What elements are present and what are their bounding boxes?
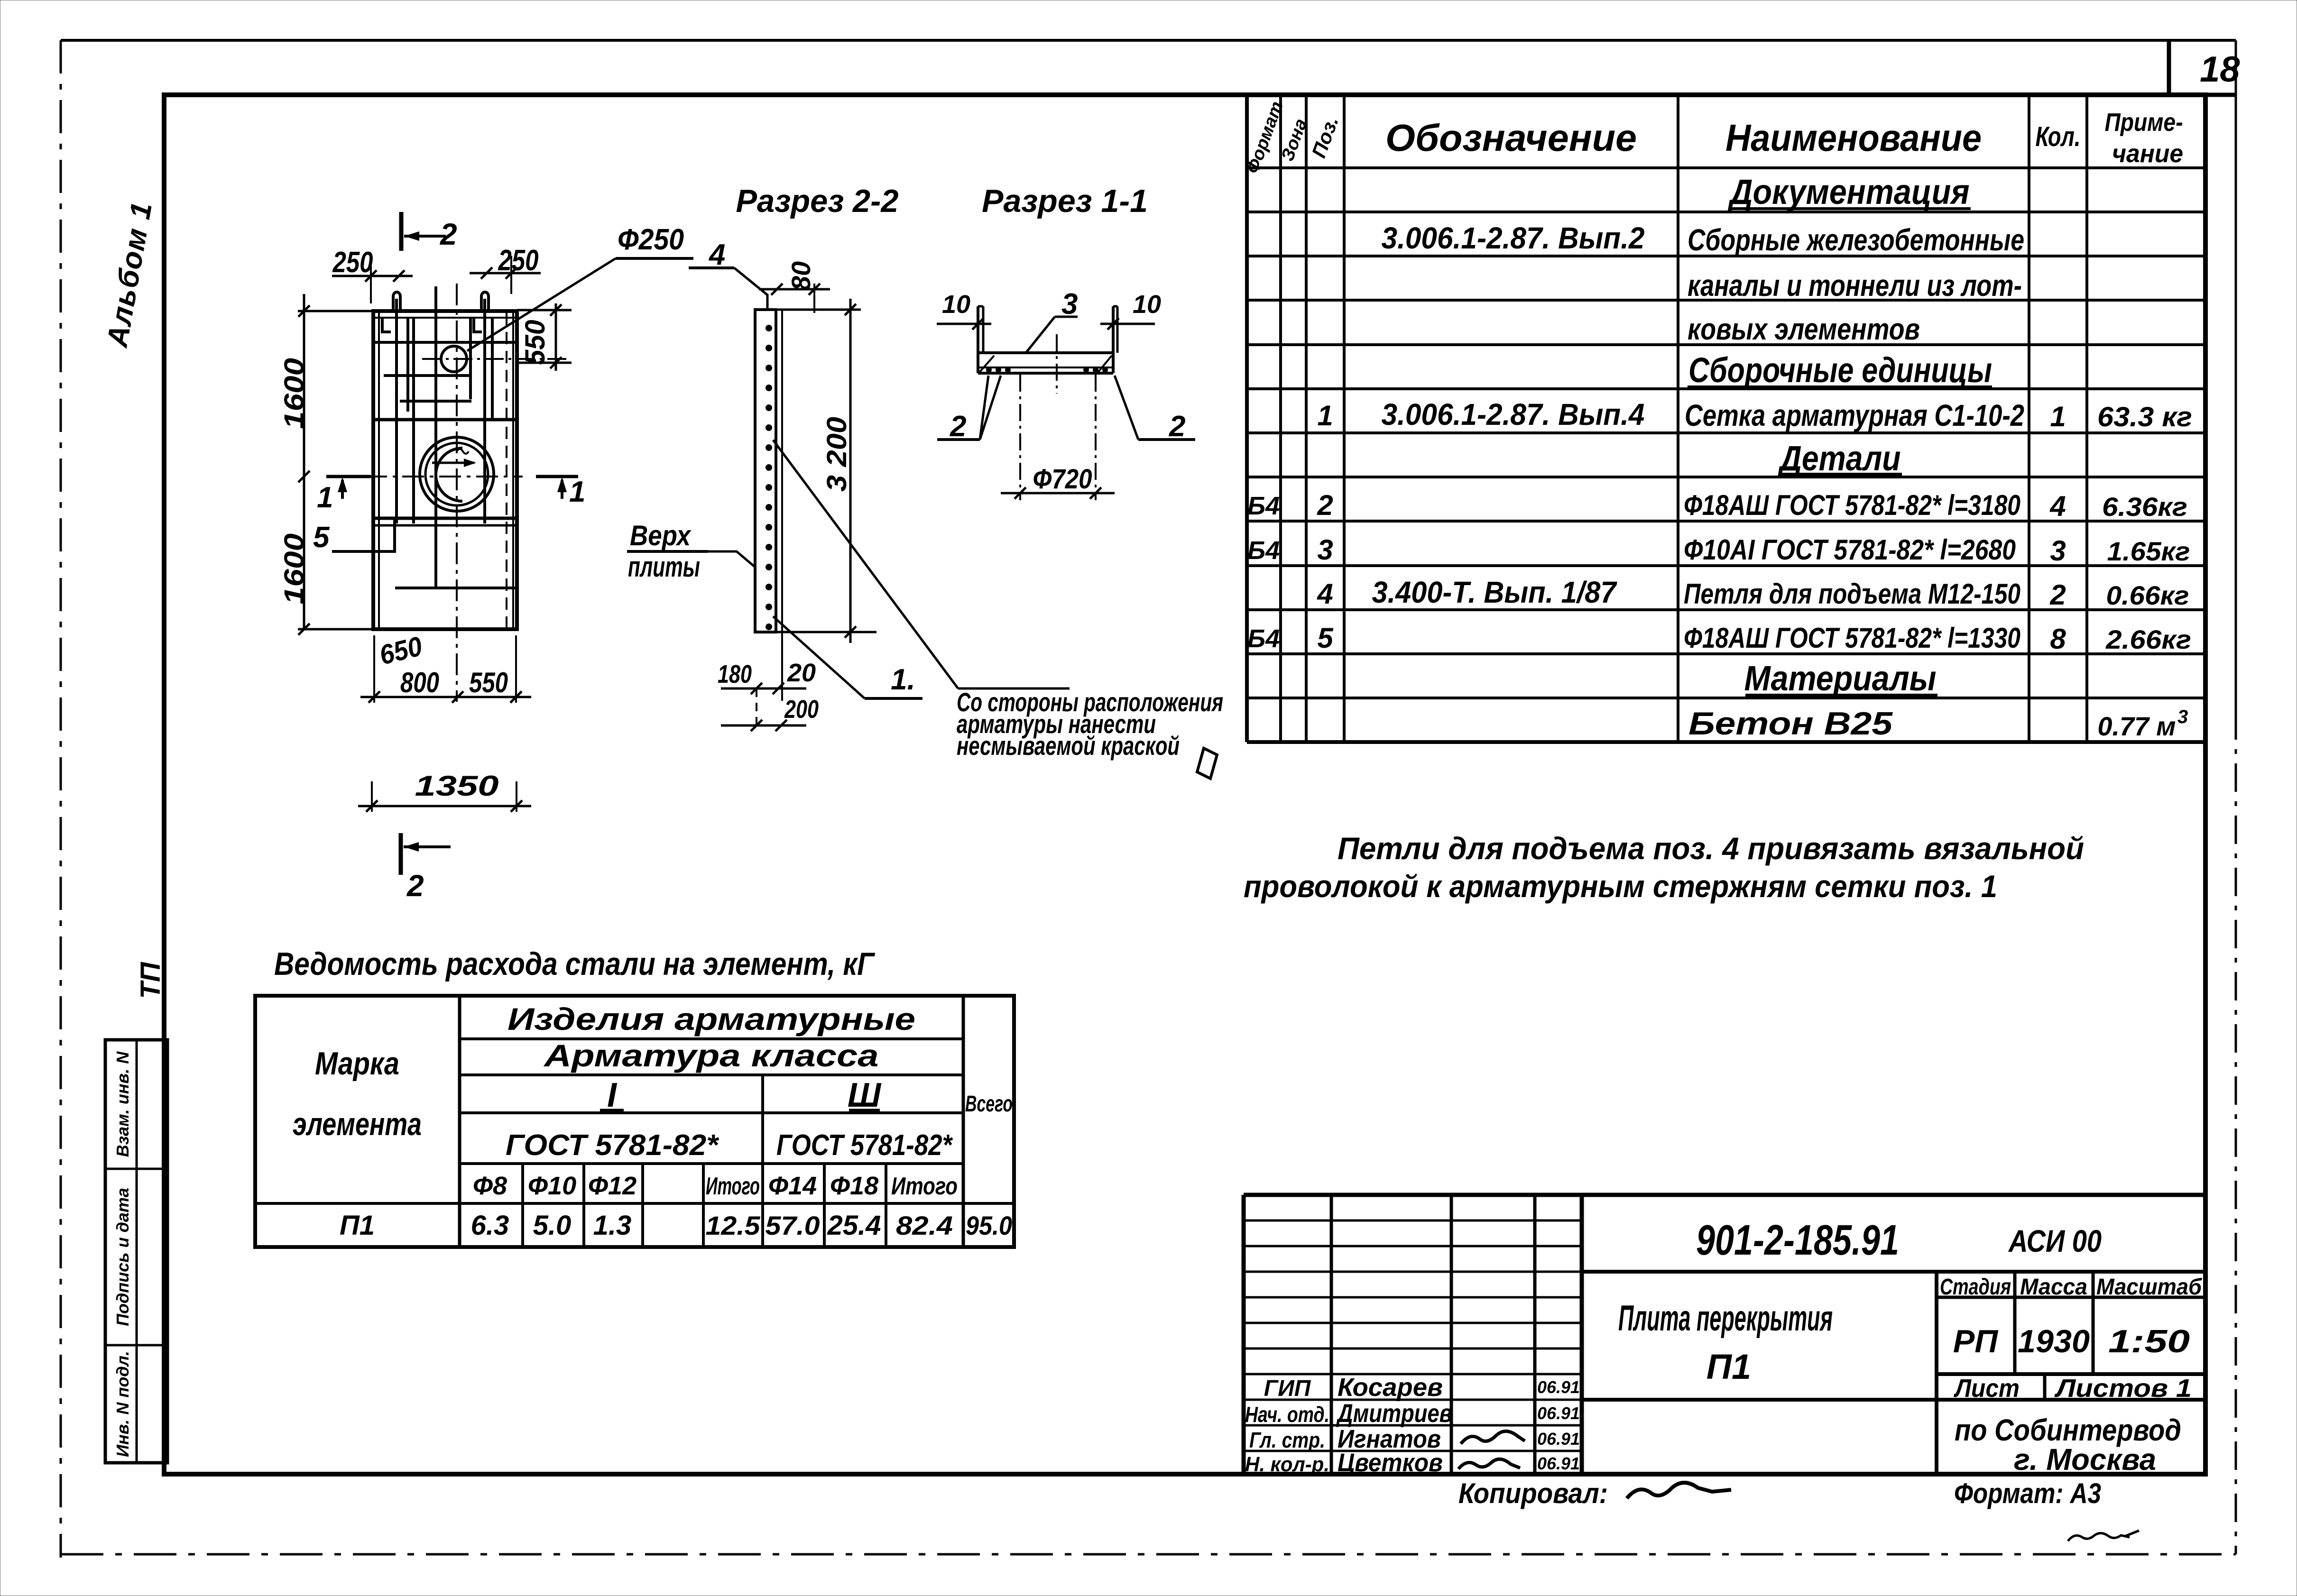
svg-text:Материалы: Материалы (1744, 659, 1937, 698)
section 1-1 label 2 left (937, 376, 1001, 443)
title block organization (1955, 1413, 2181, 1477)
svg-text:Обозначение: Обозначение (1385, 117, 1637, 159)
plan lifting loop left (393, 292, 400, 311)
plan rebar hook left (382, 317, 391, 332)
margin label TP (135, 962, 166, 999)
section 1-1 rebar dots right (1083, 367, 1108, 373)
svg-text:6.36кг: 6.36кг (2102, 492, 2187, 522)
svg-text:Ф10: Ф10 (528, 1172, 576, 1200)
svg-text:18: 18 (2200, 49, 2240, 90)
svg-text:Ф720: Ф720 (1033, 464, 1092, 495)
section 2-2 plate (755, 310, 782, 701)
plan dim 250 left (332, 246, 413, 303)
plan small hole F250 (422, 346, 567, 372)
stray pencil scribble bottom right (2068, 1531, 2139, 1541)
svg-text:Документация: Документация (1727, 172, 1969, 211)
spec row Detali (1777, 439, 1902, 478)
svg-text:Подпись и дата: Подпись и дата (113, 1188, 132, 1326)
spec header Kol (2036, 121, 2081, 152)
svg-text:П1: П1 (340, 1210, 375, 1241)
svg-text:Разрез 1-1: Разрез 1-1 (982, 183, 1148, 219)
spec row kanaly i tonneli (1688, 268, 2022, 303)
svg-text:Формат: А3: Формат: А3 (1954, 1477, 2101, 1509)
svg-text:1: 1 (1317, 400, 1333, 431)
svg-text:3: 3 (2177, 706, 2188, 727)
spec row F18AIII l=1330 (1247, 622, 2191, 655)
plan dim 250 right (470, 244, 541, 294)
svg-text:Ф14: Ф14 (768, 1172, 817, 1200)
svg-text:4: 4 (708, 238, 725, 271)
inner drawing frame (164, 95, 2205, 1474)
svg-text:Ф8: Ф8 (473, 1172, 507, 1200)
title block ACI 00 (2008, 1223, 2102, 1258)
svg-text:1:50: 1:50 (2108, 1323, 2190, 1359)
section 1-1 plate (978, 306, 1117, 373)
svg-text:ковых элементов: ковых элементов (1688, 312, 1920, 346)
svg-text:элемента: элемента (293, 1106, 422, 1142)
title block Stadiya Massa Masshtab (1940, 1275, 2202, 1359)
svg-text:2: 2 (1317, 489, 1333, 521)
svg-text:Приме-: Приме- (2105, 108, 2183, 137)
svg-text:5: 5 (1317, 622, 1334, 654)
section 2-2 dim 3200 (776, 299, 876, 643)
spec header rotated Poz (1307, 113, 1343, 161)
svg-text:2: 2 (950, 410, 966, 443)
svg-text:чание: чание (2112, 139, 2183, 168)
section 1-1 centerline (1056, 334, 1058, 394)
plan centerline vertical (456, 284, 458, 702)
svg-text:1: 1 (2050, 401, 2066, 432)
svg-text:1600: 1600 (279, 358, 310, 429)
margin label Podpis i data (113, 1188, 132, 1326)
section 1-1 rebar dots left (986, 367, 1011, 373)
signature squiggle Cvetkov (1458, 1459, 1520, 1469)
svg-text:2: 2 (440, 217, 457, 251)
section 1-1 title (982, 183, 1148, 219)
svg-text:5.0: 5.0 (533, 1210, 572, 1241)
svg-text:4: 4 (1317, 578, 1333, 610)
svg-text:Лист: Лист (1953, 1374, 2020, 1403)
spec row Sborochnye edinicy (1688, 350, 1992, 390)
section 2-2 dim 80 line (759, 284, 830, 313)
plan slab outline (373, 311, 517, 629)
svg-text:06.91: 06.91 (1537, 1429, 1580, 1449)
plan dim 800 550 bottom (360, 635, 531, 703)
section 2-2 bottom dims 180 20 200 (718, 659, 819, 731)
section 2-2 title (736, 183, 899, 219)
svg-text:АСИ 00: АСИ 00 (2008, 1223, 2102, 1258)
svg-text:63.3 кг: 63.3 кг (2097, 402, 2192, 432)
svg-text:200: 200 (784, 695, 819, 724)
svg-text:800: 800 (400, 667, 439, 698)
svg-text:Ведомость расхода стали на: Ведомость расхода стали на элемент, кГ (274, 946, 876, 982)
spec row kovyh elementov (1688, 312, 1920, 346)
spec header rotated Format (1243, 99, 1287, 176)
spec row Beton B25 (1688, 706, 2188, 742)
svg-text:2: 2 (406, 869, 424, 903)
plan big hole F720 (420, 437, 494, 511)
svg-text:06.91: 06.91 (1537, 1377, 1580, 1397)
svg-text:Б4: Б4 (1247, 492, 1280, 520)
section 2-2 verh plity label (627, 520, 755, 583)
margin label Inv N podl (113, 1351, 132, 1457)
svg-text:1: 1 (317, 481, 333, 514)
svg-text:Поз.: Поз. (1307, 113, 1343, 161)
svg-text:0.77 м: 0.77 м (2098, 711, 2176, 741)
svg-text:1.65кг: 1.65кг (2107, 536, 2190, 566)
section 2-2 dim 80 (786, 261, 816, 291)
svg-text:г. Москва: г. Москва (2014, 1442, 2156, 1477)
margin label Vzam inv N (113, 1051, 132, 1157)
spec row setka armaturnaya (1317, 397, 2192, 432)
section 2-2 leader pos1 (773, 616, 922, 698)
svg-text:550: 550 (469, 667, 508, 698)
svg-text:Кол.: Кол. (2036, 121, 2081, 152)
svg-text:57.0: 57.0 (766, 1211, 820, 1240)
svg-text:1.3: 1.3 (593, 1210, 632, 1241)
svg-text:901-2-185.91: 901-2-185.91 (1696, 1217, 1899, 1264)
svg-text:Разрез 2-2: Разрез 2-2 (736, 183, 899, 219)
section 2-2 dim 3200 label (821, 417, 852, 492)
svg-text:Цветков: Цветков (1338, 1449, 1443, 1477)
margin stamp table (105, 1040, 167, 1463)
svg-text:ТП: ТП (135, 962, 166, 999)
svg-text:550: 550 (520, 320, 551, 365)
svg-text:06.91: 06.91 (1537, 1403, 1580, 1423)
title block List / Listov (1953, 1374, 2192, 1403)
spec row Dokumentacia (1727, 172, 1971, 211)
svg-text:Итого: Итого (706, 1173, 760, 1200)
spec row Materialy (1744, 659, 1938, 698)
svg-text:82.4: 82.4 (896, 1211, 953, 1240)
svg-text:Наименование: Наименование (1725, 117, 1982, 159)
svg-text:Итого: Итого (891, 1173, 958, 1200)
spec header Naimenovanie (1725, 117, 1982, 159)
svg-text:25.4: 25.4 (827, 1210, 881, 1241)
section 2-2 rebar dots (766, 325, 772, 630)
svg-text:3.006.1-2.87. Вып.2: 3.006.1-2.87. Вып.2 (1382, 221, 1645, 255)
plan dim 650 slanted label (377, 631, 425, 671)
svg-text:ГОСТ 5781-82*: ГОСТ 5781-82* (506, 1129, 720, 1162)
plan section mark 2 bottom (401, 833, 451, 903)
spec row F10AI l=2680 (1247, 534, 2190, 567)
section 2-2 note diamond (1197, 748, 1217, 779)
svg-text:Стадия: Стадия (1940, 1275, 2011, 1300)
section 2-2 leader to note (773, 440, 1070, 688)
plan label 5 (313, 521, 330, 554)
svg-text:П1: П1 (1707, 1347, 1751, 1386)
svg-text:Взам. инв. N: Взам. инв. N (113, 1051, 132, 1157)
title block grid (1244, 1195, 2205, 1474)
plan section mark 1 right (536, 476, 585, 508)
spec header rotated Zona (1278, 116, 1311, 164)
plan dim 550 right label (520, 320, 551, 365)
svg-text:Изделия арматурные: Изделия арматурные (507, 1001, 915, 1036)
svg-text:180: 180 (718, 660, 752, 688)
svg-text:250: 250 (332, 246, 373, 279)
svg-text:Петли для подъема поз. 4 п: Петли для подъема поз. 4 привязать вязал… (1338, 831, 2084, 866)
title block name Plita perekrytiya (1618, 1298, 1833, 1386)
svg-text:3: 3 (2050, 535, 2066, 567)
svg-text:Альбом 1: Альбом 1 (101, 199, 158, 350)
svg-text:I: I (607, 1076, 618, 1114)
section 2-2 note text (957, 687, 1223, 761)
svg-text:95.0: 95.0 (966, 1211, 1012, 1240)
svg-text:Верх: Верх (630, 520, 692, 551)
svg-text:1: 1 (569, 476, 585, 508)
plan rebar grid horizontals (373, 342, 517, 588)
title block signature rows (1245, 1373, 1580, 1477)
section 1-1 dim 10 right (1100, 290, 1161, 353)
sheet number box (2169, 40, 2240, 95)
svg-text:1930: 1930 (2018, 1323, 2090, 1359)
svg-text:1.: 1. (891, 663, 915, 696)
svg-text:РП: РП (1953, 1323, 1999, 1359)
svg-text:Марка: Марка (315, 1046, 399, 1082)
svg-text:Дмитриев: Дмитриев (1336, 1399, 1452, 1428)
plan dim 1600 top label (279, 358, 310, 429)
svg-text:8: 8 (2050, 623, 2066, 655)
svg-text:Н. кол-р.: Н. кол-р. (1245, 1453, 1329, 1476)
svg-text:12.5: 12.5 (706, 1211, 761, 1240)
svg-text:каналы и тоннели из лот-: каналы и тоннели из лот- (1688, 268, 2022, 303)
spec row petlya dlya podema (1317, 575, 2189, 611)
svg-text:Ф250: Ф250 (618, 223, 684, 256)
svg-text:Копировал:: Копировал: (1458, 1477, 1608, 1509)
svg-text:6.3: 6.3 (471, 1210, 509, 1241)
section 1-1 dim 10 left (937, 290, 991, 353)
svg-text:2.66кг: 2.66кг (2105, 624, 2191, 654)
steel table title (274, 946, 876, 982)
svg-text:несмываемой краской: несмываемой краской (957, 731, 1180, 761)
svg-text:Ф18АШ ГОСТ 5781-82* l=1330: Ф18АШ ГОСТ 5781-82* l=1330 (1684, 622, 2020, 654)
section 1-1 label 3 (1026, 288, 1078, 353)
svg-text:Бетон В25: Бетон В25 (1688, 706, 1893, 742)
svg-text:0.66кг: 0.66кг (2106, 580, 2189, 610)
svg-text:3 200: 3 200 (821, 417, 852, 492)
svg-text:Косарев: Косарев (1338, 1373, 1443, 1402)
spec header Primechanie (2105, 108, 2184, 168)
svg-text:Ф18: Ф18 (830, 1172, 878, 1200)
spec row 3.006.1-2.87 vyp 2 (1382, 221, 2025, 257)
plan dim 550 right (516, 303, 572, 371)
svg-text:Нач. отд.: Нач. отд. (1245, 1402, 1329, 1427)
svg-text:3.006.1-2.87. Вып.4: 3.006.1-2.87. Вып.4 (1382, 397, 1645, 431)
svg-text:Листов 1: Листов 1 (2054, 1374, 2192, 1403)
svg-text:2: 2 (2049, 579, 2066, 611)
svg-text:650: 650 (377, 631, 425, 671)
svg-text:3: 3 (1317, 534, 1333, 566)
svg-text:20: 20 (787, 659, 816, 687)
plan rebar grid verticals (397, 286, 492, 588)
svg-text:Сетка арматурная С1-10-2: Сетка арматурная С1-10-2 (1685, 398, 2024, 432)
section 1-1 label 2 right (1115, 376, 1195, 443)
signature squiggle Ignatov (1461, 1431, 1525, 1444)
plan section mark 2 top (401, 212, 457, 251)
margin label Album 1 (101, 199, 158, 350)
plan leader F250 (467, 223, 693, 351)
plan dim 1600 top (298, 294, 373, 635)
plan section mark 1 left (317, 477, 371, 514)
note text middle (1244, 831, 2084, 904)
svg-text:Б4: Б4 (1247, 536, 1280, 565)
plan centerline horizontal section 1-1 level (365, 476, 523, 477)
svg-text:10: 10 (1133, 290, 1161, 319)
svg-text:Масштаб: Масштаб (2096, 1275, 2202, 1300)
svg-text:Арматура класса: Арматура класса (543, 1038, 878, 1073)
plan rebar hook right (474, 317, 482, 332)
plan lifting loop right (481, 292, 489, 311)
steel table data row (340, 1210, 1012, 1241)
svg-text:Ф18АШ ГОСТ 5781-82* l=3180: Ф18АШ ГОСТ 5781-82* l=3180 (1684, 489, 2020, 521)
svg-text:Сборочные единицы: Сборочные единицы (1688, 350, 1992, 390)
svg-text:5: 5 (313, 521, 330, 554)
svg-text:4: 4 (2049, 490, 2066, 522)
plan dim 1600 bottom label (279, 533, 310, 605)
svg-text:проволокой к арматурным сте: проволокой к арматурным стержням сетки п… (1244, 869, 1997, 904)
svg-text:Ф10АI ГОСТ 5781-82* l=2680: Ф10АI ГОСТ 5781-82* l=2680 (1684, 534, 2016, 566)
svg-text:2: 2 (1169, 410, 1185, 443)
under-frame Kopiroval (1458, 1477, 1731, 1509)
svg-text:Детали: Детали (1777, 439, 1900, 478)
svg-text:ГИП: ГИП (1264, 1376, 1311, 1401)
svg-text:Плита перекрытия: Плита перекрытия (1618, 1298, 1833, 1339)
title block doc number (1696, 1217, 1899, 1264)
svg-text:3.400-Т. Вып. 1/87: 3.400-Т. Вып. 1/87 (1372, 575, 1618, 609)
svg-text:Б4: Б4 (1247, 624, 1280, 653)
svg-text:Всего: Всего (965, 1092, 1013, 1117)
svg-text:Масса: Масса (2020, 1275, 2087, 1300)
steel table grid (255, 996, 1014, 1247)
section 2-2 label 4 (689, 238, 767, 310)
svg-text:Гл. стр.: Гл. стр. (1249, 1428, 1325, 1452)
svg-text:Ш: Ш (848, 1076, 882, 1114)
section 1-1 dim F720 (1001, 375, 1115, 500)
specification table grid (1247, 95, 2205, 742)
svg-text:1600: 1600 (279, 533, 310, 605)
spec row F18AIII l=3180 (1247, 489, 2187, 522)
plan dim 1350 bottom (358, 770, 531, 812)
steel table header texts (293, 1001, 1013, 1200)
svg-text:Ф12: Ф12 (588, 1172, 637, 1200)
svg-text:06.91: 06.91 (1537, 1454, 1580, 1473)
under-frame Format A3 (1954, 1477, 2101, 1509)
svg-text:Петля для подъема М12-150: Петля для подъема М12-150 (1684, 578, 2020, 610)
svg-text:Сборные железобетонные: Сборные железобетонные (1688, 223, 2024, 257)
svg-text:Инв. N подл.: Инв. N подл. (113, 1351, 132, 1457)
plan step detail pos5 (332, 518, 395, 551)
spec header Oboznachenie (1385, 117, 1637, 159)
svg-text:плиты: плиты (628, 551, 700, 583)
svg-text:10: 10 (942, 290, 970, 319)
svg-text:80: 80 (786, 261, 816, 291)
svg-text:ГОСТ 5781-82*: ГОСТ 5781-82* (776, 1129, 953, 1162)
svg-text:1350: 1350 (415, 770, 499, 802)
